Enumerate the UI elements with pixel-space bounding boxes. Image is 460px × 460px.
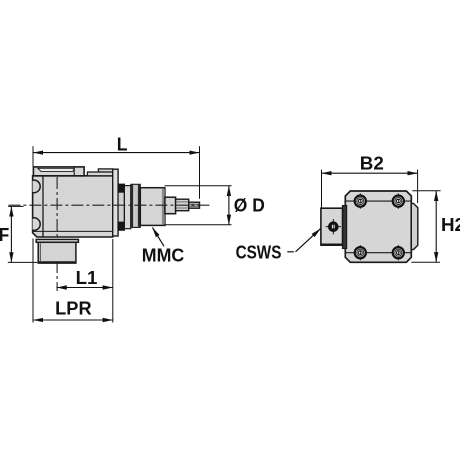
- dimension H2: [411, 191, 440, 262]
- centerline vertical bottom block axis: [56, 177, 58, 291]
- dimension LPR: [33, 239, 113, 323]
- top step plate: [33, 167, 84, 176]
- body bottom band: [33, 230, 113, 232]
- svg-text:H2: H2: [441, 215, 460, 235]
- groove dark bar 1: [131, 184, 133, 227]
- cylinder MMC body: [140, 188, 165, 226]
- CSWS protrusion: [321, 208, 343, 245]
- mount hole top: [28, 180, 41, 193]
- svg-text:LPR: LPR: [55, 298, 91, 318]
- centerline horizontal: [8, 204, 211, 206]
- svg-text:L: L: [117, 135, 128, 155]
- top plate B: [87, 172, 112, 176]
- ring A: [124, 186, 130, 229]
- collar black band top: [118, 184, 125, 193]
- flange plate: [113, 169, 118, 236]
- bottom block: [38, 242, 76, 263]
- dimension D: [165, 186, 232, 225]
- collar black band bottom: [118, 222, 125, 231]
- bottom flange: [36, 239, 78, 242]
- svg-text:F: F: [0, 225, 9, 245]
- clamp plate line top: [345, 200, 411, 202]
- groove ring section: [131, 184, 141, 227]
- screw bottom-left: [355, 245, 366, 260]
- tip stud: [189, 202, 200, 208]
- step2: [176, 199, 189, 211]
- right rib: [411, 203, 418, 249]
- screw bottom-right: [393, 245, 404, 260]
- svg-text:B2: B2: [360, 154, 384, 174]
- step1: [165, 197, 176, 214]
- right view block: [345, 191, 411, 262]
- dimension L1: [57, 287, 113, 289]
- body left strip divider: [42, 176, 44, 237]
- dimension L: [33, 146, 200, 199]
- dark band: [342, 205, 347, 248]
- collar: [118, 184, 124, 230]
- MMC leader: [152, 227, 164, 246]
- body main block: [33, 176, 113, 237]
- dimension F: [8, 206, 37, 262]
- mount hole bottom: [28, 218, 41, 231]
- groove dark bar 2: [138, 184, 140, 227]
- CSWS leader: [287, 229, 320, 252]
- CSWS screw: [326, 219, 341, 234]
- svg-text:L1: L1: [76, 268, 98, 288]
- svg-text:CSWS: CSWS: [236, 242, 282, 262]
- svg-text:Ø D: Ø D: [234, 196, 265, 216]
- top block C: [98, 169, 112, 172]
- svg-text:MMC: MMC: [142, 245, 185, 265]
- clamp plate line bottom: [345, 252, 411, 254]
- screw top-right: [393, 193, 404, 208]
- screw top-left: [355, 193, 366, 208]
- dimension B2: [322, 170, 418, 208]
- cylinder shade strip: [162, 189, 165, 225]
